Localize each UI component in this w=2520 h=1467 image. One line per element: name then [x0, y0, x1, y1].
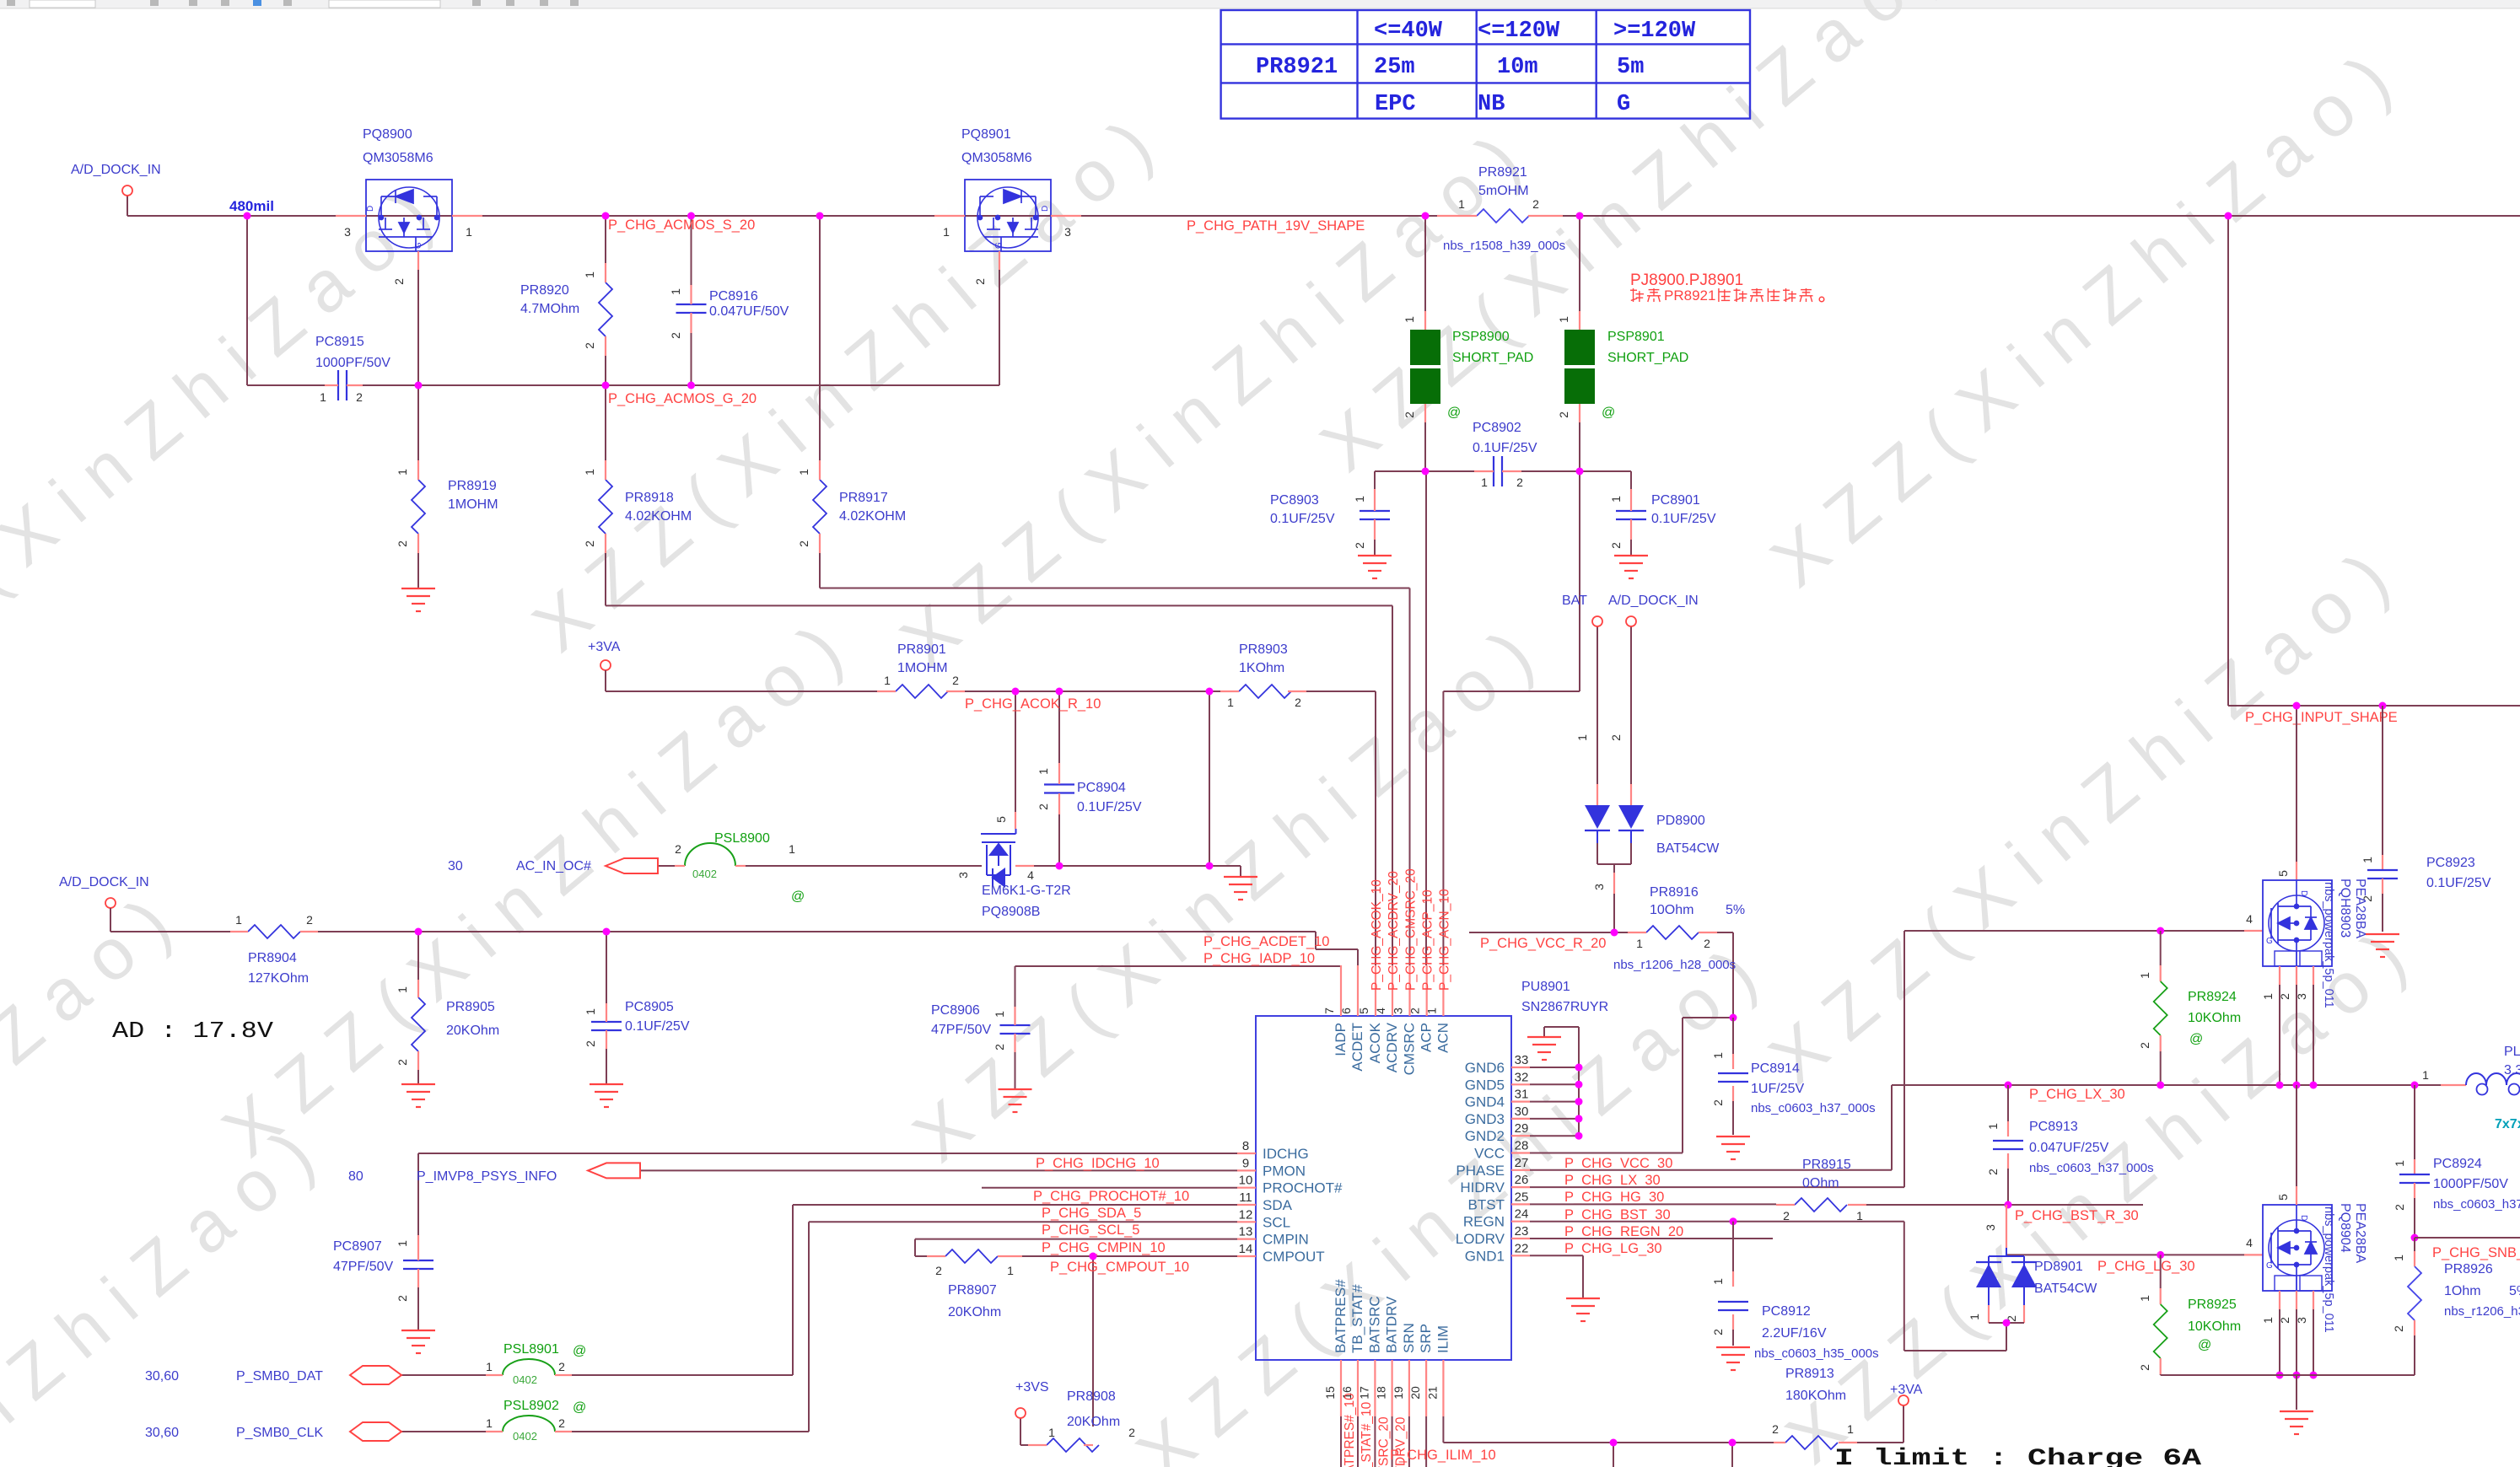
svg-text:PEA28BA: PEA28BA — [2353, 879, 2367, 938]
svg-text:@: @ — [573, 1344, 586, 1358]
svg-text:PC8906: PC8906 — [931, 1003, 980, 1018]
svg-text:D: D — [2299, 890, 2308, 896]
svg-text:nbs_r1508_h39_000s: nbs_r1508_h39_000s — [1443, 239, 1565, 253]
svg-text:25m: 25m — [1374, 55, 1415, 80]
svg-text:22: 22 — [1515, 1241, 1529, 1255]
svg-text:2: 2 — [558, 1416, 565, 1430]
svg-text:PHASE: PHASE — [1456, 1163, 1505, 1179]
svg-text:PR8921: PR8921 — [1664, 287, 1715, 304]
svg-text:PQ8904: PQ8904 — [2338, 1203, 2352, 1253]
svg-text:1Ohm: 1Ohm — [2444, 1284, 2481, 1298]
svg-text:10KOhm: 10KOhm — [2188, 1011, 2241, 1025]
svg-text:1: 1 — [1575, 734, 1589, 741]
svg-text:QM3058M6: QM3058M6 — [961, 151, 1032, 165]
svg-text:2: 2 — [1783, 1209, 1790, 1222]
svg-text:BATDRV: BATDRV — [1384, 1296, 1400, 1353]
svg-text:P_CHG_IADP_10: P_CHG_IADP_10 — [1203, 951, 1315, 966]
svg-text:PC8904: PC8904 — [1077, 781, 1126, 795]
svg-text:PD8900: PD8900 — [1656, 814, 1705, 828]
svg-text:PSL8900: PSL8900 — [714, 831, 770, 846]
svg-text:5m: 5m — [1617, 55, 1644, 80]
svg-text:2: 2 — [1986, 1169, 2000, 1175]
svg-text:0.1UF/25V: 0.1UF/25V — [1473, 441, 1537, 455]
svg-text:@: @ — [791, 889, 805, 904]
svg-text:P_CHG_REGN_20: P_CHG_REGN_20 — [1564, 1224, 1683, 1239]
svg-text:1: 1 — [2422, 1068, 2429, 1082]
svg-text:D: D — [2299, 1215, 2308, 1221]
svg-text:ACP: ACP — [1419, 1023, 1435, 1052]
svg-text:P_CHG_BATDRV_20: P_CHG_BATDRV_20 — [1394, 1416, 1408, 1467]
svg-text:PC8912: PC8912 — [1762, 1304, 1811, 1319]
svg-text:nbs_powerpak_5p_011: nbs_powerpak_5p_011 — [2322, 882, 2335, 1008]
svg-text:2: 2 — [583, 342, 596, 349]
svg-text:P_SMB0_DAT: P_SMB0_DAT — [236, 1369, 323, 1384]
svg-text:+3VA: +3VA — [588, 640, 621, 654]
svg-text:3.3UH: 3.3UH — [2504, 1063, 2520, 1077]
svg-text:IDCHG: IDCHG — [1263, 1146, 1309, 1162]
svg-text:P_CHG_ACMOS_G_20: P_CHG_ACMOS_G_20 — [608, 391, 757, 406]
svg-text:P_CHG_LG_30: P_CHG_LG_30 — [1564, 1241, 1662, 1256]
svg-text:1000PF/50V: 1000PF/50V — [2433, 1177, 2508, 1191]
svg-text:CMPOUT: CMPOUT — [1263, 1249, 1325, 1265]
svg-text:127KOhm: 127KOhm — [248, 971, 309, 986]
svg-text:2: 2 — [583, 540, 596, 547]
svg-text:2: 2 — [2392, 1325, 2405, 1332]
svg-text:PC8903: PC8903 — [1270, 493, 1319, 508]
svg-text:1: 1 — [1458, 197, 1465, 211]
svg-text:IADP: IADP — [1333, 1023, 1349, 1056]
svg-text:2.2UF/16V: 2.2UF/16V — [1762, 1326, 1827, 1341]
svg-text:PMON: PMON — [1263, 1163, 1306, 1179]
svg-text:BTST: BTST — [1468, 1196, 1505, 1212]
svg-text:10KOhm: 10KOhm — [2188, 1319, 2241, 1334]
svg-text:P_CHG_SCL_5: P_CHG_SCL_5 — [1042, 1222, 1139, 1238]
svg-text:P_CHG_BATSRC_20: P_CHG_BATSRC_20 — [1376, 1416, 1391, 1467]
svg-text:EPC: EPC — [1375, 92, 1416, 117]
svg-text:3: 3 — [344, 225, 351, 239]
svg-text:2: 2 — [584, 1040, 597, 1047]
svg-text:PR8904: PR8904 — [248, 951, 297, 965]
svg-text:BAT: BAT — [1562, 594, 1587, 608]
svg-text:CMPIN: CMPIN — [1263, 1232, 1309, 1248]
svg-text:1: 1 — [669, 288, 682, 295]
svg-text:2: 2 — [1711, 1099, 1725, 1106]
svg-text:GND2: GND2 — [1465, 1128, 1505, 1144]
svg-text:24: 24 — [1515, 1207, 1529, 1222]
svg-text:30,60: 30,60 — [145, 1369, 179, 1384]
svg-text:PEA28BA: PEA28BA — [2353, 1203, 2367, 1263]
svg-text:PC8902: PC8902 — [1473, 421, 1521, 435]
svg-text:2: 2 — [797, 540, 810, 547]
svg-text:P_CHG_LX_30: P_CHG_LX_30 — [1564, 1173, 1661, 1188]
svg-text:480mil: 480mil — [229, 198, 274, 214]
svg-text:2: 2 — [396, 1059, 409, 1066]
svg-text:P_CHG_LG_30: P_CHG_LG_30 — [2097, 1259, 2195, 1274]
svg-text:1: 1 — [320, 390, 326, 404]
svg-text:PC8924: PC8924 — [2433, 1157, 2482, 1171]
svg-text:+3VA: +3VA — [1890, 1383, 1923, 1397]
svg-text:5: 5 — [1357, 1008, 1370, 1014]
svg-text:BATPRES#: BATPRES# — [1333, 1279, 1349, 1353]
svg-text:PC8914: PC8914 — [1751, 1061, 1800, 1076]
svg-text:PC8905: PC8905 — [625, 1000, 674, 1014]
svg-text:SCL: SCL — [1263, 1214, 1290, 1230]
svg-text:2: 2 — [1037, 803, 1050, 810]
svg-text:SHORT_PAD: SHORT_PAD — [1607, 351, 1688, 365]
svg-text:G: G — [2266, 937, 2273, 946]
svg-text:2: 2 — [1772, 1422, 1779, 1436]
svg-text:1: 1 — [1481, 476, 1488, 489]
svg-text:@: @ — [1602, 406, 1615, 420]
svg-text:0402: 0402 — [513, 1373, 537, 1386]
svg-text:32: 32 — [1515, 1070, 1529, 1084]
svg-text:P_CHG_ACN_10: P_CHG_ACN_10 — [1437, 889, 1451, 991]
svg-text:2: 2 — [2138, 1042, 2151, 1049]
svg-text:1: 1 — [1711, 1278, 1725, 1285]
svg-text:0.047UF/25V: 0.047UF/25V — [2029, 1141, 2109, 1155]
svg-text:AD : 17.8V: AD : 17.8V — [112, 1019, 274, 1045]
svg-text:PR8908: PR8908 — [1067, 1389, 1116, 1404]
svg-text:2: 2 — [1557, 411, 1570, 418]
svg-text:1MOHM: 1MOHM — [448, 497, 498, 512]
svg-text:1: 1 — [884, 674, 891, 687]
svg-text:P_SMB0_CLK: P_SMB0_CLK — [236, 1426, 323, 1440]
svg-text:2: 2 — [1609, 734, 1623, 741]
svg-text:1KOhm: 1KOhm — [1239, 661, 1284, 675]
svg-text:PR8919: PR8919 — [448, 479, 497, 493]
svg-text:REGN: REGN — [1463, 1214, 1505, 1230]
svg-text:3: 3 — [956, 872, 970, 879]
svg-text:21: 21 — [1425, 1386, 1439, 1400]
svg-text:SRN: SRN — [1401, 1323, 1417, 1353]
svg-text:1: 1 — [584, 1008, 597, 1015]
svg-text:PL8900: PL8900 — [2504, 1045, 2520, 1059]
svg-text:CMSRC: CMSRC — [1402, 1023, 1418, 1075]
svg-text:nbs_r1206_h28_000s: nbs_r1206_h28_000s — [1613, 958, 1736, 972]
svg-text:PR8903: PR8903 — [1239, 642, 1288, 657]
svg-text:1: 1 — [235, 913, 242, 927]
svg-text:P_CHG_BATPRES#_10: P_CHG_BATPRES#_10 — [1343, 1393, 1357, 1467]
svg-text:1: 1 — [583, 271, 596, 278]
svg-text:1: 1 — [797, 469, 810, 476]
svg-text:P_CHG_PROCHOT#_10: P_CHG_PROCHOT#_10 — [1033, 1189, 1189, 1204]
svg-text:1: 1 — [1986, 1123, 2000, 1130]
svg-text:1: 1 — [1037, 768, 1050, 775]
svg-text:PQH8903: PQH8903 — [2338, 879, 2352, 938]
svg-text:1: 1 — [1557, 316, 1570, 323]
svg-text:GND4: GND4 — [1465, 1094, 1505, 1110]
svg-text:TB_STAT#: TB_STAT# — [1349, 1284, 1365, 1353]
svg-text:1: 1 — [2261, 1317, 2275, 1324]
svg-text:10m: 10m — [1497, 55, 1538, 80]
svg-text:30,60: 30,60 — [145, 1426, 179, 1440]
svg-text:1: 1 — [1403, 316, 1416, 323]
svg-text:1: 1 — [1007, 1264, 1014, 1277]
svg-text:P_CHG_PATH_19V_SHAPE: P_CHG_PATH_19V_SHAPE — [1187, 218, 1365, 234]
svg-text:ACDET: ACDET — [1349, 1023, 1365, 1072]
svg-text:1: 1 — [789, 842, 795, 856]
svg-text:P_CHG_ACDET_10: P_CHG_ACDET_10 — [1203, 934, 1329, 949]
svg-text:BAT54CW: BAT54CW — [1656, 841, 1720, 856]
svg-text:VCC: VCC — [1474, 1146, 1505, 1162]
svg-text:2: 2 — [558, 1360, 565, 1373]
svg-text:1: 1 — [1424, 1008, 1438, 1014]
svg-text:2: 2 — [306, 913, 313, 927]
svg-text:G: G — [414, 242, 423, 249]
svg-text:33: 33 — [1515, 1053, 1529, 1067]
svg-text:2: 2 — [1711, 1329, 1725, 1335]
svg-text:PR8901: PR8901 — [897, 642, 946, 657]
svg-text:P_CHG_SDA_5: P_CHG_SDA_5 — [1042, 1206, 1141, 1221]
svg-text:BAT54CW: BAT54CW — [2034, 1282, 2097, 1296]
svg-text:3: 3 — [1984, 1224, 1997, 1231]
svg-text:PR8921: PR8921 — [1478, 165, 1527, 180]
svg-text:3: 3 — [1592, 884, 1606, 890]
svg-text:14: 14 — [1239, 1242, 1253, 1256]
svg-text:7x7x3MM: 7x7x3MM — [2495, 1117, 2520, 1131]
svg-text:1: 1 — [1227, 696, 1234, 709]
svg-text:1: 1 — [993, 1011, 1006, 1018]
svg-text:6: 6 — [1339, 1008, 1353, 1014]
svg-text:0.1UF/25V: 0.1UF/25V — [625, 1019, 690, 1034]
svg-text:PR8916: PR8916 — [1650, 885, 1699, 900]
svg-text:5: 5 — [994, 816, 1008, 823]
svg-text:PC8913: PC8913 — [2029, 1120, 2078, 1134]
svg-text:D: D — [1041, 206, 1050, 212]
svg-text:3: 3 — [2295, 1317, 2308, 1324]
svg-text:nbs_r1206_h30_: nbs_r1206_h30_ — [2444, 1304, 2520, 1319]
svg-text:1: 1 — [1711, 1052, 1725, 1059]
svg-text:PQ8900: PQ8900 — [363, 127, 412, 142]
svg-text:GND1: GND1 — [1465, 1248, 1505, 1264]
svg-text:0.1UF/25V: 0.1UF/25V — [2426, 876, 2491, 890]
svg-text:30: 30 — [448, 859, 463, 873]
svg-text:1: 1 — [943, 225, 950, 239]
svg-text:P_CHG_ACMOS_S_20: P_CHG_ACMOS_S_20 — [608, 218, 755, 233]
svg-text:@: @ — [2189, 1032, 2203, 1046]
svg-text:P_CHG_CMSRC_20: P_CHG_CMSRC_20 — [1404, 868, 1419, 991]
svg-text:A/D_DOCK_IN: A/D_DOCK_IN — [1608, 594, 1699, 608]
svg-text:SDA: SDA — [1263, 1197, 1293, 1213]
svg-text:1: 1 — [2361, 857, 2374, 863]
svg-text:19: 19 — [1392, 1386, 1405, 1400]
svg-text:5%: 5% — [2509, 1284, 2520, 1298]
svg-text:1: 1 — [396, 1240, 409, 1247]
svg-text:QM3058M6: QM3058M6 — [363, 151, 433, 165]
svg-text:0.047UF/50V: 0.047UF/50V — [709, 304, 789, 319]
svg-text:4.02KOHM: 4.02KOHM — [625, 509, 692, 524]
svg-text:1000PF/50V: 1000PF/50V — [315, 356, 390, 370]
svg-text:PSL8901: PSL8901 — [503, 1342, 559, 1357]
svg-text:P_CHG_VCC_30: P_CHG_VCC_30 — [1564, 1156, 1672, 1171]
svg-text:5: 5 — [2276, 870, 2290, 877]
svg-text:1: 1 — [1968, 1314, 1981, 1320]
svg-text:23: 23 — [1515, 1224, 1529, 1239]
svg-text:GND5: GND5 — [1465, 1077, 1505, 1093]
svg-text:P_CHG_IDCHG_10: P_CHG_IDCHG_10 — [1036, 1156, 1160, 1171]
svg-text:PR8921: PR8921 — [1256, 55, 1338, 80]
svg-text:ACOK: ACOK — [1367, 1022, 1383, 1063]
svg-text:P_CHG_CMPOUT_10: P_CHG_CMPOUT_10 — [1050, 1260, 1189, 1275]
svg-text:P_CHG_ACDRV_20: P_CHG_ACDRV_20 — [1387, 871, 1401, 991]
svg-text:2: 2 — [993, 1044, 1006, 1051]
svg-text:P_CHG_LX_30: P_CHG_LX_30 — [2029, 1087, 2125, 1102]
svg-text:P_IMVP8_PSYS_INFO: P_IMVP8_PSYS_INFO — [417, 1169, 557, 1184]
svg-text:1: 1 — [1856, 1209, 1863, 1222]
svg-text:PR8920: PR8920 — [520, 283, 569, 298]
svg-text:3: 3 — [1392, 1008, 1405, 1014]
svg-text:2: 2 — [396, 1295, 409, 1302]
svg-text:G: G — [2266, 1261, 2273, 1271]
svg-text:1: 1 — [2393, 1160, 2406, 1167]
svg-text:20KOhm: 20KOhm — [948, 1305, 1001, 1319]
svg-text:20KOhm: 20KOhm — [1067, 1415, 1120, 1429]
svg-text:1: 1 — [466, 225, 472, 239]
svg-text:P_CHG_ACOK_10: P_CHG_ACOK_10 — [1370, 879, 1384, 991]
svg-text:SHORT_PAD: SHORT_PAD — [1452, 351, 1533, 365]
svg-text:15: 15 — [1323, 1386, 1337, 1400]
svg-text:PR8905: PR8905 — [446, 1000, 495, 1014]
svg-text:<=40W: <=40W — [1374, 19, 1443, 44]
svg-text:4.7MOhm: 4.7MOhm — [520, 302, 579, 316]
svg-text:1: 1 — [1048, 1426, 1055, 1439]
svg-text:PR8925: PR8925 — [2188, 1298, 2237, 1312]
svg-text:27: 27 — [1515, 1156, 1529, 1170]
svg-text:2: 2 — [2278, 1317, 2291, 1324]
svg-text:LODRV: LODRV — [1456, 1231, 1505, 1247]
svg-text:4: 4 — [2246, 1236, 2253, 1249]
svg-text:PR8917: PR8917 — [839, 491, 888, 505]
svg-text:NB: NB — [1478, 92, 1505, 117]
svg-text:+3VS: +3VS — [1015, 1380, 1049, 1394]
svg-text:PR8926: PR8926 — [2444, 1262, 2493, 1276]
svg-text:8: 8 — [1242, 1139, 1249, 1153]
svg-text:PROCHOT#: PROCHOT# — [1263, 1180, 1343, 1196]
svg-text:PR8915: PR8915 — [1802, 1158, 1851, 1172]
svg-text:1: 1 — [486, 1360, 493, 1373]
svg-text:PC8915: PC8915 — [315, 335, 364, 349]
svg-text:1: 1 — [583, 469, 596, 476]
svg-text:28: 28 — [1515, 1139, 1529, 1153]
svg-text:20: 20 — [1408, 1386, 1422, 1400]
svg-text:2: 2 — [2278, 993, 2291, 1000]
svg-text:25: 25 — [1515, 1190, 1529, 1204]
svg-text:1: 1 — [2138, 1295, 2151, 1302]
svg-text:nbs_c0603_h37_: nbs_c0603_h37_ — [2433, 1197, 2520, 1212]
svg-text:GND6: GND6 — [1465, 1060, 1505, 1076]
svg-text:P_CHG_INPUT_SHAPE: P_CHG_INPUT_SHAPE — [2245, 710, 2398, 725]
svg-text:2: 2 — [1128, 1426, 1135, 1439]
svg-text:0.1UF/25V: 0.1UF/25V — [1270, 512, 1335, 526]
svg-text:PC8901: PC8901 — [1651, 493, 1700, 508]
svg-text:180KOhm: 180KOhm — [1785, 1389, 1846, 1403]
svg-text:29: 29 — [1515, 1121, 1529, 1136]
svg-text:2: 2 — [392, 278, 406, 285]
svg-text:5%: 5% — [1726, 903, 1745, 917]
svg-text:P_CHG_CMPIN_10: P_CHG_CMPIN_10 — [1042, 1240, 1166, 1255]
svg-text:PR8924: PR8924 — [2188, 990, 2237, 1004]
svg-text:PJ8900.PJ8901: PJ8900.PJ8901 — [1630, 271, 1743, 289]
svg-text:7: 7 — [1322, 1008, 1336, 1014]
svg-text:P_CHG_ACP_10: P_CHG_ACP_10 — [1421, 889, 1435, 991]
svg-text:2: 2 — [1704, 937, 1710, 950]
svg-text:PR8918: PR8918 — [625, 491, 674, 505]
svg-text:10: 10 — [1239, 1174, 1253, 1188]
svg-text:D: D — [366, 206, 375, 212]
svg-text:1MOHM: 1MOHM — [897, 661, 948, 675]
svg-text:PQ8901: PQ8901 — [961, 127, 1011, 142]
svg-text:2: 2 — [1353, 542, 1366, 549]
svg-text:P_CHG_SNB_2: P_CHG_SNB_2 — [2432, 1245, 2520, 1260]
svg-text:PR8907: PR8907 — [948, 1283, 997, 1298]
svg-text:G: G — [1617, 92, 1630, 117]
svg-text:31: 31 — [1515, 1088, 1529, 1102]
svg-text:2: 2 — [356, 390, 363, 404]
svg-text:2: 2 — [675, 842, 681, 856]
svg-text:P_CHG_HG_30: P_CHG_HG_30 — [1564, 1190, 1664, 1205]
svg-text:17: 17 — [1357, 1386, 1370, 1400]
svg-text:1: 1 — [1636, 937, 1643, 950]
svg-text:2: 2 — [396, 540, 409, 547]
svg-text:0.1UF/25V: 0.1UF/25V — [1077, 800, 1142, 814]
svg-text:4: 4 — [1027, 868, 1034, 882]
svg-text:13: 13 — [1239, 1225, 1253, 1239]
svg-text:PSP8901: PSP8901 — [1607, 330, 1665, 344]
svg-text:0Ohm: 0Ohm — [1802, 1176, 1839, 1190]
svg-text:2: 2 — [2138, 1364, 2151, 1371]
svg-text:2: 2 — [1295, 696, 1301, 709]
svg-text:47PF/50V: 47PF/50V — [333, 1260, 393, 1274]
svg-text:BATSRC: BATSRC — [1366, 1296, 1382, 1353]
svg-text:ACN: ACN — [1435, 1023, 1451, 1053]
svg-text:nbs_c0603_h37_000s: nbs_c0603_h37_000s — [1751, 1101, 1876, 1115]
svg-text:@: @ — [2198, 1338, 2211, 1352]
svg-text:1: 1 — [2138, 972, 2151, 979]
svg-text:2: 2 — [952, 674, 959, 687]
svg-text:A/D_DOCK_IN: A/D_DOCK_IN — [71, 163, 161, 177]
svg-text:2: 2 — [973, 278, 987, 285]
svg-text:PR8913: PR8913 — [1785, 1367, 1834, 1381]
svg-text:5: 5 — [2276, 1194, 2290, 1201]
svg-text:2: 2 — [935, 1264, 942, 1277]
svg-text:12: 12 — [1239, 1207, 1253, 1222]
svg-text:P_CHG_ACOK_R_10: P_CHG_ACOK_R_10 — [965, 696, 1101, 712]
svg-text:11: 11 — [1239, 1190, 1252, 1205]
svg-text:nbs_c0603_h37_000s: nbs_c0603_h37_000s — [2029, 1161, 2154, 1175]
svg-text:@: @ — [573, 1400, 586, 1415]
svg-text:0402: 0402 — [513, 1430, 537, 1443]
svg-text:5mOHM: 5mOHM — [1478, 184, 1529, 198]
svg-text:PQ8908B: PQ8908B — [982, 905, 1040, 919]
svg-text:3: 3 — [1064, 225, 1071, 239]
svg-text:AC_IN_OC#: AC_IN_OC# — [516, 859, 591, 873]
svg-text:nbs_c0603_h35_000s: nbs_c0603_h35_000s — [1754, 1346, 1879, 1361]
svg-text:EM6K1-G-T2R: EM6K1-G-T2R — [982, 884, 1071, 898]
svg-text:1: 1 — [2261, 993, 2275, 1000]
svg-text:1: 1 — [1609, 496, 1623, 502]
svg-text:ILIM: ILIM — [1435, 1325, 1451, 1353]
svg-text:2: 2 — [2393, 1204, 2406, 1211]
svg-text:SRP: SRP — [1418, 1324, 1434, 1353]
svg-text:@: @ — [1447, 406, 1461, 420]
svg-text:G: G — [994, 242, 1004, 249]
svg-text:47PF/50V: 47PF/50V — [931, 1023, 991, 1037]
svg-text:4.02KOHM: 4.02KOHM — [839, 509, 906, 524]
svg-text:1: 1 — [1353, 496, 1366, 502]
svg-text:nbs_powerpak_5p_011: nbs_powerpak_5p_011 — [2322, 1206, 2335, 1333]
svg-text:<=120W: <=120W — [1478, 19, 1560, 44]
svg-text:26: 26 — [1515, 1173, 1529, 1187]
